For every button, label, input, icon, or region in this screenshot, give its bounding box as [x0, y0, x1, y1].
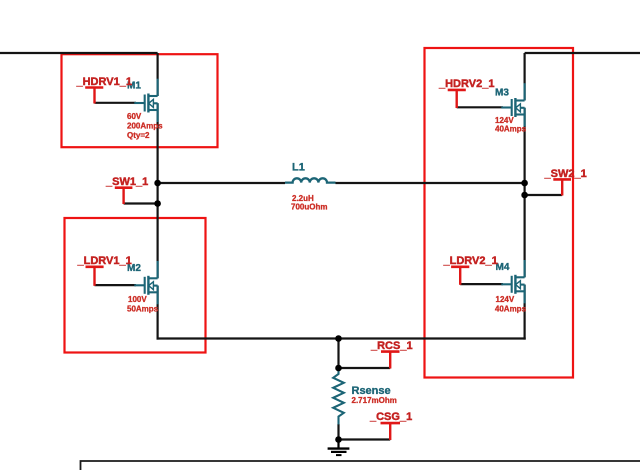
junction node bottom rail to Rsense — [335, 335, 342, 342]
port _SW1_1 — [105, 176, 148, 204]
wire top-right output — [525, 52, 640, 54]
transistor M1 — [134, 79, 157, 122]
wire right vertical (M3 source to M4 drain) — [523, 108, 525, 277]
svg-text:M3: M3 — [495, 88, 509, 99]
transistor M1 value labels — [127, 112, 163, 140]
svg-text:124V: 124V — [496, 295, 515, 304]
resistor Rsense value label — [352, 396, 397, 405]
port _LDRV2_1 — [443, 255, 498, 285]
svg-text:Qty=2: Qty=2 — [127, 131, 150, 140]
port _LDRV1_1 — [77, 255, 132, 286]
svg-text:50Amps: 50Amps — [127, 305, 159, 314]
port _CSG_1 — [369, 411, 412, 440]
wire SW2 port stub — [525, 194, 563, 196]
svg-text:124V: 124V — [495, 116, 514, 125]
transistor M1 refdes — [127, 81, 141, 92]
wire bottom rail — [157, 337, 526, 339]
transistor M4 value labels — [495, 295, 527, 314]
junction node SW1 port stub — [154, 200, 161, 207]
svg-text:_LDRV1_1: _LDRV1_1 — [77, 255, 132, 267]
inductor L1 — [285, 178, 336, 182]
svg-text:_SW2_1: _SW2_1 — [544, 168, 587, 180]
svg-text:200Amps: 200Amps — [127, 122, 163, 131]
port _HDRV1_1 — [76, 76, 132, 104]
svg-text:60V: 60V — [127, 112, 142, 121]
resistor Rsense — [333, 368, 344, 425]
resistor Rsense refdes — [352, 385, 391, 397]
highlight box 2 (around M2) — [65, 218, 206, 353]
transistor M3 refdes — [495, 88, 509, 99]
port _RCS_1 — [370, 340, 413, 369]
wire M2 gate — [95, 284, 137, 286]
wire M3 gate — [457, 106, 503, 108]
svg-text:_SW1_1: _SW1_1 — [105, 176, 148, 188]
junction node RCS — [335, 365, 342, 372]
svg-text:_HDRV2_1: _HDRV2_1 — [438, 78, 494, 90]
transistor M4 refdes — [496, 262, 510, 273]
highlight box 3 (around M3 and M4) — [425, 48, 574, 378]
inductor L1 refdes — [292, 161, 305, 173]
title block frame — [81, 461, 640, 470]
junction node CSG — [335, 436, 342, 443]
svg-text:_CSG_1: _CSG_1 — [369, 411, 412, 423]
transistor M2 refdes — [127, 263, 141, 274]
wire M1 gate — [95, 102, 137, 104]
transistor M3 value labels — [495, 116, 527, 134]
wire left vertical (M1 drain branch) — [157, 53, 159, 96]
transistor M4 — [501, 260, 524, 303]
svg-text:700uOhm: 700uOhm — [291, 203, 327, 212]
wire right vertical (M3 drain branch) — [523, 53, 525, 101]
junction node SW1 on inductor wire — [154, 180, 161, 187]
junction node SW2 on inductor wire — [521, 180, 528, 187]
wire SW1 port stub — [124, 202, 158, 204]
svg-text:2.717mOhm: 2.717mOhm — [352, 396, 397, 405]
wire left vertical (M2 source to bottom rail) — [157, 286, 159, 340]
svg-text:40Amps: 40Amps — [495, 125, 527, 134]
inductor L1 value labels — [291, 194, 327, 212]
junction node SW2 port stub — [521, 192, 528, 199]
highlight box 1 (around M1) — [62, 54, 218, 147]
svg-text:100V: 100V — [128, 295, 147, 304]
wire Rsense bottom stub — [337, 424, 339, 441]
wire top-left input — [0, 52, 158, 54]
wire RCS port stub — [339, 367, 391, 369]
wire SW node left segment — [158, 182, 285, 184]
port _HDRV2_1 — [438, 78, 494, 108]
wire Rsense top stub — [337, 339, 339, 369]
svg-text:_HDRV1_1: _HDRV1_1 — [76, 76, 132, 88]
svg-text:_RCS_1: _RCS_1 — [370, 340, 413, 352]
transistor M3 — [501, 83, 524, 126]
svg-text:_LDRV2_1: _LDRV2_1 — [443, 255, 498, 267]
ground — [328, 440, 350, 456]
wire right vertical (M4 source to bottom rail) — [523, 285, 525, 340]
wire left vertical (M1 source to M2 drain) — [157, 103, 159, 278]
transistor M2 — [134, 261, 157, 304]
wire CSG port stub — [339, 438, 391, 440]
port _SW2_1 — [544, 168, 587, 196]
transistor M2 value labels — [127, 295, 159, 314]
wire M4 gate — [460, 283, 503, 285]
wire SW node right segment — [336, 182, 525, 184]
svg-text:L1: L1 — [292, 161, 305, 173]
svg-text:40Amps: 40Amps — [495, 305, 527, 314]
